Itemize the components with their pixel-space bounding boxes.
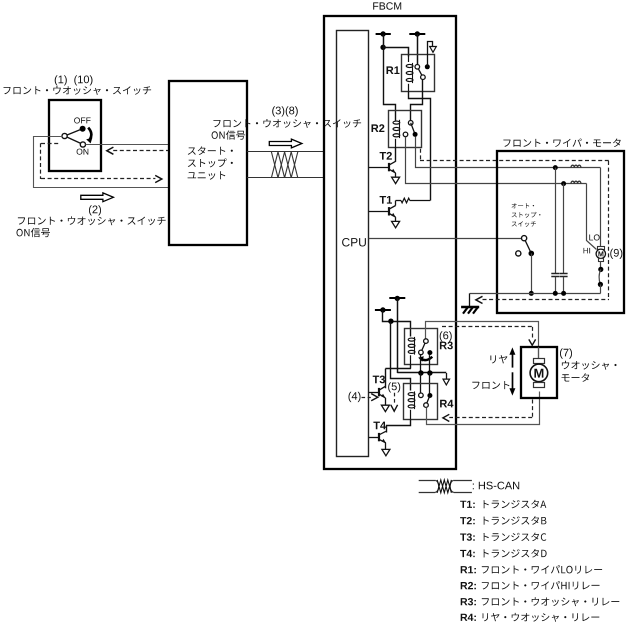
dashed signal to unit (arrow right) (41, 175, 162, 182)
legend T2 (460, 516, 546, 525)
HS-CAN bus wire bottom (247, 177, 324, 179)
label start-stop unit (188, 146, 233, 179)
legend R2 (461, 581, 600, 590)
relay R3 NO contact (top) (424, 339, 429, 344)
dashed arrow (4) (362, 394, 378, 401)
label front washer switch (mid) (213, 119, 361, 128)
switch OFF contact (dot) (80, 126, 86, 132)
label (9) (610, 249, 622, 259)
relay R1 NC contact (dot) (425, 64, 430, 69)
label OFF (74, 117, 91, 123)
label front wiper motor (503, 139, 620, 148)
offpage arrow near R1 (430, 47, 437, 53)
wire T1 collector up (396, 201, 402, 206)
wire CPU to T3 base (369, 392, 380, 394)
relay R2 NC contact (dot) (413, 132, 418, 137)
relay R3 common contact (419, 350, 424, 355)
resistor at T1 collector (401, 198, 410, 203)
dashed arrow (5) (391, 393, 398, 411)
relay R2 label (372, 124, 385, 132)
ground bus in motor box (470, 293, 601, 295)
label front washer switch (top-left) (4, 86, 152, 95)
transistor T2 label (380, 152, 392, 160)
switch actuation curved arrow (86, 128, 92, 144)
transistor T3 label (373, 376, 385, 384)
switch arm to OFF (65, 130, 81, 136)
label FBCM (373, 2, 401, 9)
label CPU (342, 238, 366, 247)
transistor T1 label (380, 196, 392, 204)
transistor T2 (389, 161, 400, 183)
node bus R3 NC (427, 370, 432, 375)
front wiper motor box (497, 151, 624, 313)
wire LO drop to motor (600, 168, 602, 247)
power feed bar (right) (409, 31, 425, 36)
label ON signal line2 (17, 228, 51, 237)
transistor T3 (379, 386, 389, 411)
dashed return stub at ON (41, 143, 59, 145)
legend T4 (460, 549, 546, 558)
relay R2 switch arm (411, 123, 415, 135)
wire R1 coil to T1 (right drop) (409, 92, 431, 201)
wire left power to R1 coil (384, 35, 409, 57)
label : HS-CAN (473, 482, 519, 490)
wire junction down to R4 coil (391, 322, 411, 391)
relay R4 switch arm (426, 396, 430, 406)
node C1 bus (553, 291, 558, 296)
label (7) (560, 348, 572, 358)
node LO wire junction (553, 165, 558, 170)
node auto-stop bus (529, 291, 534, 296)
wire motor to connector dots (598, 261, 604, 293)
wire bus to offpage arrow (446, 373, 448, 379)
block arrow (3)(8) (269, 139, 302, 148)
relay R3 box (405, 329, 438, 365)
relay R3 label (440, 342, 453, 350)
relay R4 label (440, 400, 453, 408)
legend T3 (460, 533, 546, 542)
rear direction arrow (509, 347, 515, 367)
dashed signal wiper LO/HI out (420, 149, 609, 161)
node bus R3 common (418, 370, 423, 375)
transistor T1 (389, 206, 400, 228)
node C2 bus (561, 291, 566, 296)
wire CPU to auto-stop switch (369, 238, 522, 240)
relay bus (397, 372, 446, 374)
wire R4 common to washer motor (427, 392, 540, 425)
dashed right side in motor box (608, 161, 610, 300)
label (4) (349, 392, 361, 402)
wire T4 collector up (385, 425, 387, 431)
power feed bar (left) (376, 31, 391, 36)
inductor on LO wire (571, 165, 581, 167)
CPU box (337, 31, 369, 457)
wire CPU to T4 base (369, 437, 379, 439)
power feed bar lower-left (375, 307, 391, 312)
wire CPU to T1 base (369, 211, 390, 213)
relay R4 NO contact (top) (419, 393, 424, 398)
wire resistor to R1 coil line (410, 200, 431, 202)
wiper motor M symbol (596, 247, 605, 262)
relay R4 NC contact (dot) (427, 393, 432, 398)
label front washer switch ON signal line1 (18, 216, 166, 225)
transistor T4 label (373, 422, 386, 430)
relay R2 common contact (408, 121, 413, 126)
start-stop unit box (169, 81, 247, 245)
offpage arrow near R4 (443, 379, 450, 385)
wire R2 NO down to HI feed (406, 137, 587, 184)
relay R2 NO contact (403, 132, 408, 137)
wire bus down to R4 NC (429, 373, 431, 393)
relay R1 label (387, 66, 400, 74)
wire T3 collector to R3 coil (385, 365, 411, 388)
wire left power down to R2 coil (384, 48, 396, 121)
relay R3 switch arm (421, 341, 426, 352)
label (6) (440, 331, 452, 341)
washer motor M symbol (530, 347, 548, 392)
HS-CAN legend symbol (419, 480, 472, 492)
switch ON contact (80, 142, 85, 147)
wire power to R3 coil (383, 311, 411, 337)
relay R1 box (402, 55, 435, 92)
relay R4 common contact (424, 403, 429, 408)
wire auto-stop to ground bus (531, 253, 533, 293)
relay R4 box (404, 384, 438, 420)
HS-CAN twisted pair symbol (271, 152, 297, 178)
washer motor box (521, 347, 557, 398)
label front (472, 381, 509, 389)
wire R3 NO up to washer motor (426, 322, 539, 365)
label LO (589, 234, 599, 240)
dashed ON signal from unit (arrow left) (107, 147, 169, 154)
wire right power to R1 common (417, 34, 419, 64)
front direction arrow (509, 372, 515, 395)
relay R1 switch arm (417, 67, 423, 77)
label HI (584, 248, 591, 254)
dashed return vertical (40, 143, 42, 179)
HS-CAN legend twist (437, 480, 451, 493)
HS-CAN bus wire top (247, 151, 324, 153)
capacitor C1 (551, 168, 559, 294)
block arrow (2) (81, 193, 114, 202)
wire bus down to R4 NO (420, 373, 422, 393)
auto-stop switch pivot (522, 236, 527, 241)
relay R3 actuation arrow (418, 356, 432, 362)
label ON (77, 149, 89, 155)
legend R3 (461, 597, 620, 606)
wire R3 NC to bus (429, 355, 431, 373)
node junction below left power (380, 45, 385, 50)
capacitor C2 (560, 184, 568, 294)
legend T1 (460, 500, 546, 509)
wire R2 coil to T2 collector (395, 147, 397, 162)
legend R1 (461, 565, 602, 574)
label (2) (89, 205, 101, 215)
wire CPU to T2 base (369, 167, 390, 169)
relay R3 coil (408, 337, 415, 365)
relay R1 coil (406, 55, 413, 92)
relay R3 NC contact (dot) (427, 350, 432, 355)
legend R4 (461, 613, 600, 622)
inductor on HI wire (571, 181, 581, 183)
node HI wire junction (561, 181, 566, 186)
label ON signal (mid) (212, 130, 246, 139)
wire R4 coil to T4 (387, 420, 411, 433)
washer switch box (49, 100, 101, 171)
label auto-stop switch (512, 203, 541, 227)
label (5) (388, 382, 400, 392)
auto-stop NC contact (516, 251, 521, 256)
wire R1 NO to R2 common (411, 80, 423, 121)
wire R2 NC down to LO feed (416, 137, 601, 168)
relay R2 coil (393, 120, 400, 147)
relay R1 NO contact (421, 75, 426, 80)
label riya (rear) (490, 355, 507, 363)
label washer motor line1 (562, 361, 617, 370)
label (1)(10) (55, 75, 93, 85)
switch arm to ON (65, 136, 83, 144)
relay R1 common contact (415, 65, 420, 70)
auto-stop moving contact (dot) (529, 251, 535, 257)
wire switch ON to start-stop unit (86, 144, 170, 146)
auto-stop switch arm (524, 238, 531, 253)
dashed washer signal top (442, 327, 536, 346)
transistor T4 (379, 431, 390, 456)
wire power to relay bus (397, 298, 399, 373)
chassis ground symbol (461, 307, 479, 314)
FBCM box (324, 16, 456, 469)
label washer motor line2 (562, 373, 590, 382)
relay R4 coil (408, 391, 415, 419)
switch pivot (62, 133, 67, 138)
wire HI drop to motor (587, 184, 597, 250)
wire switch pivot to start-stop unit (34, 137, 170, 188)
wire R3 common to bus (420, 355, 422, 373)
power feed bar lower-right (389, 296, 405, 301)
dashed return to ground (arrow left) (476, 296, 609, 303)
node R3/R4 coil feed junction (388, 319, 393, 324)
label (3)(8) (272, 106, 298, 116)
dashed washer signal bottom (443, 400, 533, 422)
wire LO to motor (580, 167, 601, 169)
wire R1 NC to offpage arrow (428, 42, 433, 67)
relay R2 box (389, 111, 422, 148)
ground riser outside motor box (469, 293, 471, 306)
